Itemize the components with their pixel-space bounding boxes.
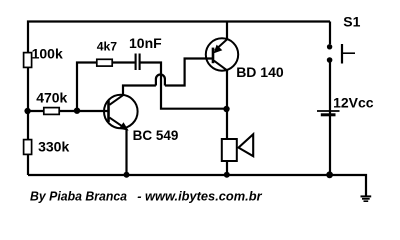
wire BD140 collector down to speaker — [226, 70, 228, 139]
junction node BD140 collector / cap wire — [223, 106, 229, 112]
wire switch upper segment — [329, 22, 331, 45]
junction node BC549 emitter on bottom rail — [124, 172, 130, 178]
switch S1 contact dots — [327, 44, 332, 49]
resistor R4 4k7 — [97, 59, 112, 66]
wire BD140 emitter up to rail — [226, 22, 228, 40]
wire riser from node to 4k7 and to capacitor — [77, 63, 135, 112]
transistor Q1 BC 549 — [104, 95, 138, 129]
transistor Q2 BD 140 — [206, 38, 238, 70]
capacitor C1 10nF — [136, 54, 140, 71]
wire capacitor to BD140 collector node — [140, 63, 226, 109]
transistor Q2 emitter arrow — [214, 45, 223, 54]
svg-text:BD 140: BD 140 — [236, 64, 284, 80]
wire hop over vertical — [156, 75, 165, 86]
svg-text:BC 549: BC 549 — [133, 128, 179, 143]
battery B1 plates — [317, 111, 340, 115]
wire BC549 emitter down — [125, 129, 127, 175]
switch S1 actuator — [342, 44, 355, 64]
ground — [361, 196, 372, 201]
speaker LS1 — [222, 139, 237, 161]
svg-text:By Piaba Branca: By Piaba Branca — [30, 188, 127, 203]
svg-text:10nF: 10nF — [129, 35, 162, 51]
wire speaker to bottom rail — [226, 161, 228, 175]
wire switch lower to battery to bottom rail — [329, 62, 331, 175]
svg-text:12Vcc: 12Vcc — [333, 95, 374, 111]
svg-text:- www.ibytes.com.br: - www.ibytes.com.br — [137, 188, 262, 203]
wire hop to BD140 base — [165, 59, 212, 86]
junction node at 470k/4k7/base — [74, 108, 80, 114]
resistor R3 330k — [24, 140, 32, 155]
wire top rail and left rail — [28, 22, 330, 176]
svg-text:4k7: 4k7 — [97, 40, 118, 54]
speaker horn — [239, 134, 254, 156]
wire BC549 collector up — [123, 86, 156, 97]
resistor R1 100k — [24, 53, 32, 68]
transistor Q1 emitter arrow — [119, 122, 129, 130]
wire 470k row: left rail to BC549 base — [28, 110, 109, 112]
junction node at 100k/470k — [24, 108, 30, 114]
svg-text:330k: 330k — [38, 139, 69, 155]
resistor R2 470k — [44, 108, 59, 115]
svg-text:100k: 100k — [32, 46, 63, 62]
svg-text:S1: S1 — [343, 14, 360, 30]
svg-text:470k: 470k — [36, 90, 67, 106]
junction node battery on bottom rail — [326, 171, 333, 178]
junction node speaker on bottom rail — [224, 172, 230, 178]
wire bottom rail to ground — [28, 175, 366, 196]
